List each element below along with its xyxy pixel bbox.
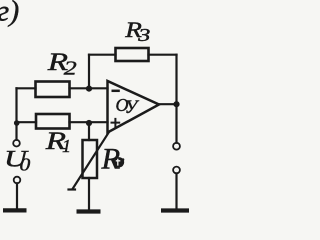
svg-text:0: 0 bbox=[20, 155, 31, 175]
svg-text:2: 2 bbox=[64, 57, 77, 79]
svg-text:г): г) bbox=[0, 0, 19, 28]
svg-text:3: 3 bbox=[137, 25, 150, 45]
svg-text:1: 1 bbox=[62, 136, 71, 156]
